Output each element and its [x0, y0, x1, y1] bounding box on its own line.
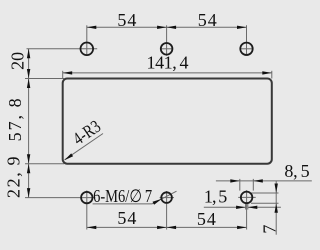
wire: 141,4 right extension — [271, 71, 273, 79]
svg-text:54: 54 — [117, 208, 136, 228]
svg-text:54: 54 — [117, 10, 136, 30]
svg-text:1, 5: 1, 5 — [204, 186, 227, 206]
arrow 57,8 top — [27, 79, 30, 89]
wire: extension line hole T1 up — [86, 25, 88, 56]
arrow bottom dim middle right — [167, 226, 177, 229]
wire: 8,5 left tangent extension — [239, 179, 241, 191]
wire: 1,5 left tick — [245, 204, 247, 210]
hole B3 slot — [241, 192, 253, 204]
wire: 1,5 dimension line left part — [204, 206, 246, 208]
wire: extension at rect top left — [25, 78, 64, 80]
wire: 141,4 dimension line — [63, 72, 272, 74]
arrow 57,8 bottom — [27, 154, 30, 164]
wire: extension at bottom hole centerline left — [25, 197, 95, 199]
hole B1 — [81, 192, 92, 203]
arrow 8,5 right — [253, 179, 262, 182]
arrow 141,4 right — [262, 71, 272, 74]
arrow top dim left end — [87, 26, 97, 29]
arrow bottom dim left end — [87, 226, 97, 229]
rectangle body outline — [63, 79, 272, 164]
hole T1 — [81, 43, 94, 56]
arrow top dim right end — [237, 26, 247, 29]
wire: extension at rect bottom left — [25, 163, 64, 165]
svg-text:57, 8: 57, 8 — [5, 98, 25, 141]
svg-text:6-M6/∅ 7: 6-M6/∅ 7 — [93, 186, 152, 206]
arrow leader 6-M6 — [153, 199, 162, 205]
wire: hole T3 horizontal crosshair — [240, 48, 253, 50]
wire: extension line hole T2 up — [166, 25, 168, 56]
arrow leader 4-R3 — [64, 153, 73, 160]
wire: 7 dimension vertical line — [275, 181, 277, 235]
arrow 141,4 left — [63, 71, 72, 74]
wire: hole T2 horizontal crosshair — [160, 48, 173, 50]
svg-text:7: 7 — [259, 225, 279, 234]
svg-text:54: 54 — [197, 209, 216, 229]
hole B2 — [161, 192, 172, 203]
arrow 1,5 right — [248, 206, 257, 209]
arrow 1,5 left — [236, 206, 246, 209]
svg-text:54: 54 — [198, 10, 217, 30]
wire: 1,5 dimension line right part — [248, 206, 281, 208]
wire: extension at hole T1 centerline left — [27, 48, 98, 50]
arrow 20 bottom — [27, 69, 30, 79]
wire: 8,5 right tangent extension — [252, 179, 254, 191]
arrow 20 top — [27, 49, 30, 59]
arrow 22,9 bottom — [27, 188, 30, 198]
wire: 1,5 right tick — [247, 204, 249, 210]
arrow top dim middle left — [157, 26, 167, 29]
svg-text:141, 4: 141, 4 — [147, 52, 189, 72]
arrow 22,9 top — [27, 164, 30, 174]
wire: left vertical dimension line — [28, 49, 30, 198]
arrow bottom dim right end — [237, 226, 247, 229]
wire: leader to hole B2 — [152, 191, 177, 204]
wire: 8,5 dimension line — [216, 180, 312, 182]
wire: hole B3 bottom tangent line — [251, 202, 279, 204]
svg-text:20: 20 — [7, 52, 27, 70]
arrow 8,5 left — [230, 179, 240, 182]
arrow bottom dim middle left — [157, 226, 167, 229]
svg-text:8, 5: 8, 5 — [284, 161, 309, 181]
wire: 141,4 left extension — [62, 71, 64, 79]
wire: bottom dimension line 54/54 — [87, 226, 247, 228]
arrow 7 top — [275, 184, 278, 194]
svg-text:22, 9: 22, 9 — [4, 156, 24, 198]
wire: extension hole B1 down — [86, 190, 88, 229]
wire: hole B3 horizontal crosshair — [238, 196, 256, 198]
arrow top dim middle right — [167, 26, 177, 29]
wire: label underline 6-M6 — [93, 203, 152, 205]
wire: hole B2 horizontal crosshair — [160, 197, 174, 199]
hole T2 — [161, 43, 173, 55]
arrow 7 bottom — [275, 203, 278, 213]
hole T3 — [240, 43, 252, 55]
wire: extension hole B2 down — [166, 191, 168, 230]
wire: extension hole B3 down — [246, 190, 248, 229]
wire: extension line hole T3 up — [246, 25, 248, 56]
wire: leader 4-R3 — [65, 134, 103, 160]
wire: hole B3 top tangent line — [251, 192, 279, 194]
wire: top dimension line 54/54 — [87, 26, 247, 28]
